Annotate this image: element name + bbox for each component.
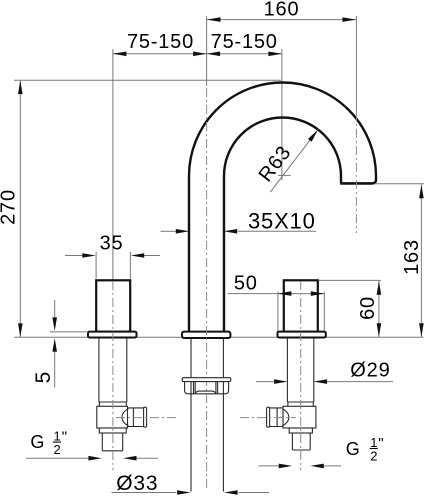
svg-text:35X10: 35X10 xyxy=(248,208,316,233)
dim Ø33 xyxy=(112,472,270,495)
right valve step ring xyxy=(288,402,313,406)
right valve flange xyxy=(278,332,326,338)
dim 75-150 left xyxy=(113,31,207,56)
spout base flange xyxy=(182,332,230,338)
right valve bottom washer xyxy=(289,428,312,433)
svg-text:270: 270 xyxy=(0,189,20,225)
outlet centerline xyxy=(355,112,357,233)
left valve shank tube xyxy=(99,339,127,402)
left valve side port xyxy=(128,408,144,427)
right valve shank tube xyxy=(287,339,313,402)
right valve side port xyxy=(270,408,283,427)
left valve body below deck xyxy=(97,339,147,451)
dim 160 xyxy=(207,0,356,22)
svg-text:60: 60 xyxy=(357,296,379,320)
svg-text:75-150: 75-150 xyxy=(211,31,278,53)
dim 5 xyxy=(32,300,88,388)
svg-text:G: G xyxy=(346,439,360,459)
svg-text:50: 50 xyxy=(234,273,258,295)
wire: deck reference line xyxy=(14,336,424,338)
left valve hex facet arc xyxy=(122,409,128,426)
node arc center cross xyxy=(278,174,291,176)
svg-text:75-150: 75-150 xyxy=(127,31,194,53)
spout outlet bottom edge xyxy=(340,182,372,185)
svg-text:160: 160 xyxy=(264,0,300,21)
dim 35 xyxy=(65,233,160,279)
dim R63 leader xyxy=(255,128,320,192)
left valve bottom washer xyxy=(99,428,126,433)
dim 270 xyxy=(0,80,23,337)
svg-text:163: 163 xyxy=(401,239,423,275)
right valve port centerline xyxy=(240,417,296,419)
svg-text:5: 5 xyxy=(32,372,55,384)
dim 50 xyxy=(228,273,325,331)
right valve hex facet arc xyxy=(282,409,289,426)
right valve centerline xyxy=(300,281,302,470)
left valve port centerline xyxy=(116,417,176,419)
spout shank washer xyxy=(182,378,231,382)
label G 1/2 inch left xyxy=(26,429,158,461)
right valve body xyxy=(283,406,316,428)
svg-text:2: 2 xyxy=(370,448,377,463)
svg-text:2: 2 xyxy=(54,442,61,457)
wire ext: outlet centerline extension top xyxy=(355,16,357,112)
left valve handle knob xyxy=(96,280,130,332)
spout body xyxy=(182,83,376,339)
dim 75-150 right xyxy=(207,31,282,56)
right valve body below deck xyxy=(267,339,316,450)
wire ext: arc-center extension (right end of second 75-150) xyxy=(281,49,283,181)
dim 60 xyxy=(318,280,381,336)
wire ext: left valve centerline extension xyxy=(112,49,114,280)
dim Ø29 xyxy=(256,360,393,384)
spout inner contour xyxy=(224,118,341,333)
left valve body xyxy=(97,406,128,428)
right valve handle knob xyxy=(284,280,318,332)
dim 163 xyxy=(375,184,424,337)
spout shank hex nut xyxy=(185,382,229,394)
wire ext: spout top for 270 xyxy=(14,79,281,81)
left valve centerline xyxy=(112,281,114,470)
dim 35X10 leader xyxy=(161,208,317,233)
svg-text:": " xyxy=(62,429,67,446)
svg-text:G: G xyxy=(30,432,44,452)
svg-text:": " xyxy=(378,435,383,452)
svg-text:Ø33: Ø33 xyxy=(116,472,158,495)
right valve G1/2 thread tube xyxy=(292,433,310,450)
left valve flange xyxy=(88,332,137,338)
spout shank below flange xyxy=(182,339,231,492)
spout centerline xyxy=(206,88,208,491)
wire ext: spout centerline extension top xyxy=(206,16,208,86)
svg-text:35: 35 xyxy=(100,233,124,255)
label G 1/2 inch right xyxy=(259,435,384,468)
left valve step ring xyxy=(99,402,126,406)
left valve G1/2 thread tube xyxy=(102,433,122,451)
spout outer contour xyxy=(189,83,376,333)
svg-text:Ø29: Ø29 xyxy=(350,360,390,382)
